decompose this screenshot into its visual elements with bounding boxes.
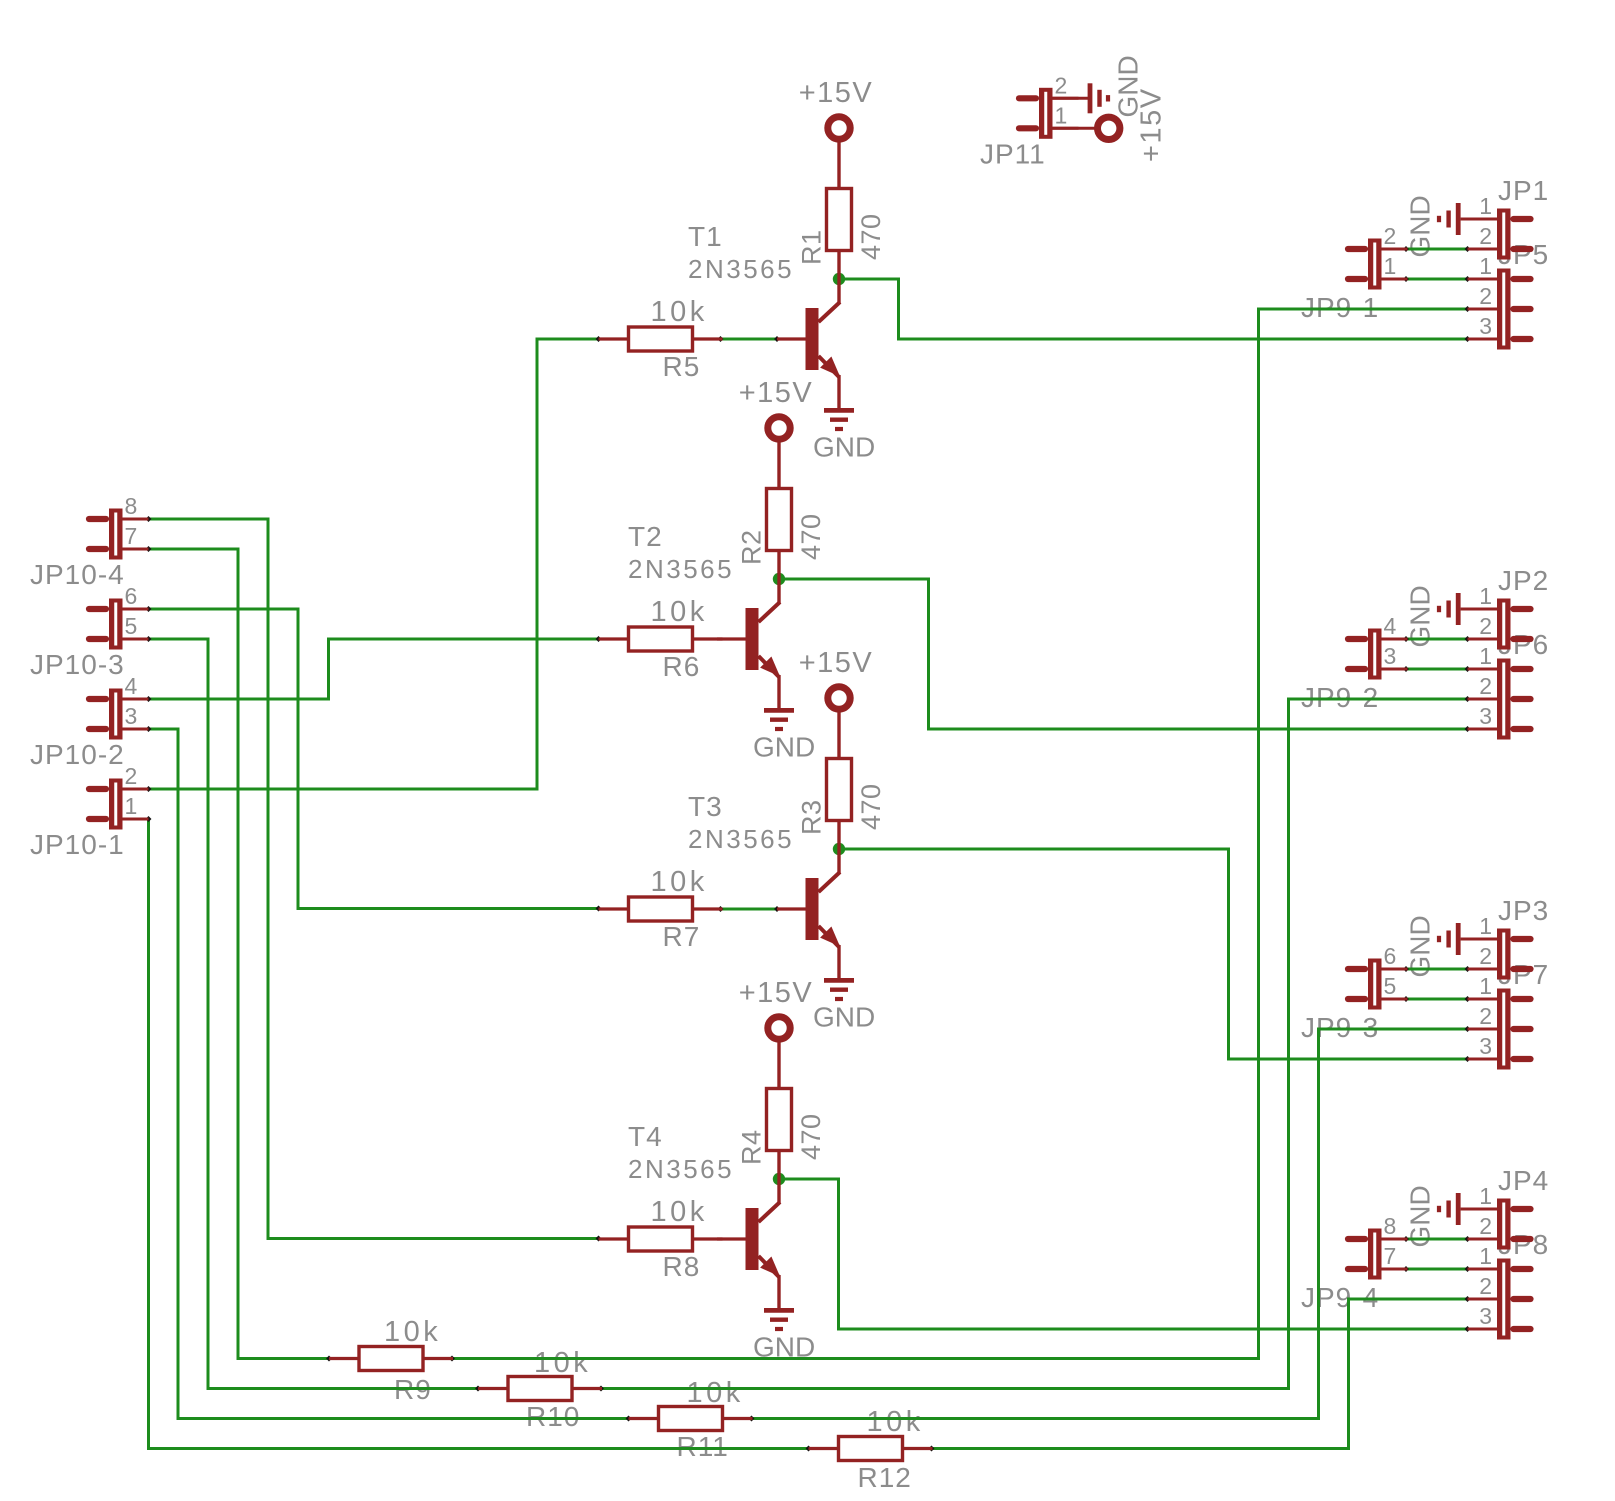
svg-text:1: 1 [1479, 643, 1492, 669]
svg-text:5: 5 [125, 613, 138, 639]
svg-text:+15V: +15V [739, 977, 814, 1009]
svg-text:8: 8 [125, 493, 138, 519]
resistor R11 10k [629, 1407, 753, 1431]
ground GND at T4 emitter [764, 1310, 794, 1329]
wire JP10-1 pin1 to R12 [146, 816, 812, 1451]
svg-text:10k: 10k [651, 596, 708, 628]
svg-text:6: 6 [1384, 943, 1397, 969]
connector JP3 [1468, 929, 1531, 980]
wire T3 collector to JP7 pin3 [839, 849, 1470, 1062]
power +15V supply T1 [828, 117, 850, 189]
svg-text:470: 470 [796, 513, 826, 560]
transistor T2 2N3565 [717, 602, 780, 708]
connector JP8 [1468, 1259, 1531, 1340]
wire JP10-4 pin8 to R8 [146, 516, 602, 1241]
svg-text:3: 3 [1479, 1033, 1492, 1059]
ground GND at JP11 pin2 [1053, 83, 1109, 113]
svg-text:2: 2 [1055, 72, 1068, 98]
svg-text:8: 8 [1384, 1213, 1397, 1239]
svg-text:JP10-3: JP10-3 [30, 649, 125, 680]
svg-text:JP3: JP3 [1498, 895, 1549, 926]
svg-text:GND: GND [753, 732, 815, 763]
svg-text:10k: 10k [867, 1406, 924, 1438]
svg-text:T2: T2 [628, 521, 663, 552]
connector JP2 [1468, 599, 1531, 650]
svg-text:10k: 10k [651, 296, 708, 328]
svg-text:2: 2 [1479, 943, 1492, 969]
transistor T4 2N3565 [717, 1202, 780, 1308]
wire R10 to JP6 pin2 [598, 696, 1470, 1391]
connector JP10-2 [89, 689, 149, 740]
connector JP9-1 [1348, 239, 1408, 290]
svg-text:R4: R4 [737, 1129, 767, 1165]
svg-text:3: 3 [125, 703, 138, 729]
wire JP9-3 pin1 link [1403, 996, 1470, 1002]
svg-text:+15V: +15V [1136, 87, 1168, 162]
svg-text:T1: T1 [688, 221, 723, 252]
wire R12 to JP8 pin2 [929, 1296, 1471, 1451]
svg-text:1: 1 [1479, 913, 1492, 939]
resistor R2 470 [767, 489, 792, 604]
svg-text:10k: 10k [651, 866, 708, 898]
power +15V at JP11 pin1 [1053, 117, 1120, 139]
label JP9-3 [1301, 943, 1396, 1043]
wire JP9-1 pin2 link [1403, 246, 1470, 252]
svg-text:R6: R6 [663, 651, 701, 682]
connector JP1 [1468, 209, 1531, 260]
svg-text:2N3565: 2N3565 [628, 1154, 734, 1184]
resistor R6 10k [599, 627, 723, 651]
svg-text:1: 1 [1479, 583, 1492, 609]
svg-text:1: 1 [1055, 102, 1068, 128]
ground GND at JP4 pin1 [1439, 1193, 1497, 1225]
junction node T3 collector [833, 843, 845, 855]
svg-text:470: 470 [856, 783, 886, 830]
svg-text:2N3565: 2N3565 [688, 254, 794, 284]
label JP4 [1479, 1165, 1549, 1239]
svg-text:1: 1 [1384, 253, 1397, 279]
transistor T3 2N3565 [777, 872, 840, 978]
svg-text:3: 3 [1384, 643, 1397, 669]
svg-text:1: 1 [1479, 1183, 1492, 1209]
svg-text:JP10-4: JP10-4 [30, 559, 125, 590]
wire JP10-2 pin4 to R6 [146, 636, 602, 702]
ground GND at JP3 pin1 [1439, 923, 1497, 955]
resistor R5 10k [599, 327, 723, 351]
resistor R12 10k [809, 1437, 933, 1461]
svg-text:R7: R7 [663, 921, 701, 952]
svg-text:T4: T4 [628, 1121, 663, 1152]
svg-text:4: 4 [1384, 613, 1397, 639]
svg-text:R3: R3 [797, 799, 827, 835]
connector JP7 [1468, 989, 1531, 1070]
svg-text:JP2: JP2 [1498, 565, 1549, 596]
wire R9 to JP5 pin2 [449, 306, 1470, 1361]
junction node T2 collector [773, 573, 785, 585]
svg-text:R12: R12 [858, 1462, 912, 1493]
label JP11 [980, 72, 1067, 169]
label JP10-2 [30, 673, 138, 770]
svg-text:1: 1 [1479, 253, 1492, 279]
svg-text:470: 470 [856, 213, 886, 260]
wire T1 collector to JP5 pin3 [839, 279, 1470, 342]
connector JP5 [1468, 269, 1531, 350]
svg-text:GND: GND [813, 432, 875, 463]
wire JP9-4 pin2 link [1403, 1236, 1470, 1242]
wire JP9-1 pin1 link [1403, 276, 1470, 282]
label JP6 [1479, 629, 1549, 729]
wire T2 collector to JP6 pin3 [779, 579, 1470, 732]
label JP10-1 [30, 763, 137, 860]
svg-text:10k: 10k [384, 1316, 441, 1348]
label JP7 [1479, 959, 1549, 1059]
svg-text:7: 7 [1384, 1243, 1397, 1269]
svg-text:+15V: +15V [799, 647, 874, 679]
label JP10-4 [30, 493, 137, 590]
connector JP9-3 [1348, 959, 1408, 1010]
wire JP9-2 pin1 link [1403, 666, 1470, 672]
ground GND at T3 emitter [824, 980, 854, 999]
label JP10-3 [30, 583, 137, 680]
power +15V supply T2 [768, 417, 790, 489]
svg-text:R10: R10 [526, 1401, 580, 1432]
svg-text:3: 3 [1479, 1303, 1492, 1329]
svg-text:470: 470 [796, 1113, 826, 1160]
wire JP10-3 pin6 to R7 [146, 606, 602, 911]
svg-text:+15V: +15V [739, 377, 814, 409]
svg-text:+15V: +15V [799, 77, 874, 109]
svg-text:JP10-2: JP10-2 [30, 739, 125, 770]
svg-text:1: 1 [1479, 193, 1492, 219]
wire JP10-4 pin7 to R9 [146, 546, 332, 1361]
svg-text:2: 2 [125, 763, 138, 789]
svg-text:2: 2 [1479, 673, 1492, 699]
label JP9-1 [1301, 223, 1396, 323]
svg-text:10k: 10k [534, 1347, 591, 1379]
wire JP10-3 pin5 to R10 [146, 636, 481, 1391]
svg-text:6: 6 [125, 583, 138, 609]
svg-text:R11: R11 [677, 1431, 729, 1462]
ground GND at JP2 pin1 [1439, 593, 1497, 625]
resistor R7 10k [599, 897, 723, 921]
power +15V supply T4 [768, 1017, 790, 1089]
label JP8 [1479, 1229, 1549, 1329]
resistor R3 470 [827, 759, 852, 874]
ground GND at T1 emitter [824, 410, 854, 429]
connector JP9-4 [1348, 1229, 1408, 1280]
svg-text:GND: GND [813, 1002, 875, 1033]
connector JP10-4 [89, 509, 149, 560]
wire JP10-1 pin2 to R5 [146, 336, 602, 792]
svg-text:JP1: JP1 [1498, 175, 1549, 206]
svg-text:1: 1 [1479, 973, 1492, 999]
transistor T1 2N3565 [777, 302, 840, 408]
svg-text:2N3565: 2N3565 [628, 554, 734, 584]
svg-text:3: 3 [1479, 313, 1492, 339]
connector JP11 [1019, 88, 1079, 139]
junction node T4 collector [773, 1173, 785, 1185]
ground GND at T2 emitter [764, 710, 794, 729]
svg-text:2: 2 [1479, 283, 1492, 309]
power +15V supply T3 [828, 687, 850, 759]
connector JP4 [1468, 1199, 1531, 1250]
label JP9-2 [1301, 613, 1397, 713]
svg-text:4: 4 [125, 673, 138, 699]
resistor R1 470 [827, 189, 852, 304]
wire JP9-3 pin2 link [1403, 966, 1470, 972]
svg-text:JP10-1: JP10-1 [30, 829, 125, 860]
resistor R8 10k [599, 1227, 723, 1251]
label JP9-4 [1301, 1213, 1396, 1313]
svg-text:JP4: JP4 [1498, 1165, 1549, 1196]
svg-text:2: 2 [1479, 223, 1492, 249]
resistor R9 10k [329, 1347, 453, 1371]
svg-text:2: 2 [1479, 1003, 1492, 1029]
label JP5 [1479, 239, 1549, 339]
svg-text:JP11: JP11 [980, 139, 1046, 170]
connector JP10-3 [89, 599, 149, 650]
resistor R10 10k [478, 1377, 602, 1401]
wire R5 to T1 base [718, 336, 780, 342]
svg-text:10k: 10k [687, 1377, 744, 1409]
svg-text:1: 1 [125, 793, 138, 819]
svg-text:2: 2 [1384, 223, 1397, 249]
svg-text:2: 2 [1479, 1213, 1492, 1239]
wire JP9-4 pin1 link [1403, 1266, 1470, 1272]
wire JP9-2 pin2 link [1403, 636, 1470, 642]
connector JP9-2 [1348, 629, 1408, 680]
wire T4 collector to JP8 pin3 [779, 1179, 1470, 1332]
svg-text:10k: 10k [651, 1196, 708, 1228]
svg-text:R1: R1 [797, 229, 827, 265]
wire R11 to JP7 pin2 [749, 1026, 1471, 1421]
resistor R4 470 [767, 1089, 792, 1204]
svg-text:2: 2 [1479, 613, 1492, 639]
svg-text:R5: R5 [663, 351, 701, 382]
connector JP6 [1468, 659, 1531, 740]
svg-text:R8: R8 [663, 1251, 701, 1282]
wire JP10-2 pin3 to R11 [146, 726, 632, 1421]
junction node T1 collector [833, 273, 845, 285]
svg-text:R2: R2 [737, 529, 767, 565]
svg-text:1: 1 [1479, 1243, 1492, 1269]
label JP2 [1479, 565, 1549, 639]
svg-text:3: 3 [1479, 703, 1492, 729]
wire R7 to T3 base [718, 906, 780, 912]
svg-text:T3: T3 [688, 791, 723, 822]
svg-text:2: 2 [1479, 1273, 1492, 1299]
ground GND at JP1 pin1 [1439, 203, 1497, 235]
connector JP10-1 [89, 779, 149, 830]
svg-text:7: 7 [125, 523, 138, 549]
label JP3 [1479, 895, 1549, 969]
label JP1 [1479, 175, 1549, 249]
svg-text:2N3565: 2N3565 [688, 824, 794, 854]
svg-text:5: 5 [1384, 973, 1397, 999]
